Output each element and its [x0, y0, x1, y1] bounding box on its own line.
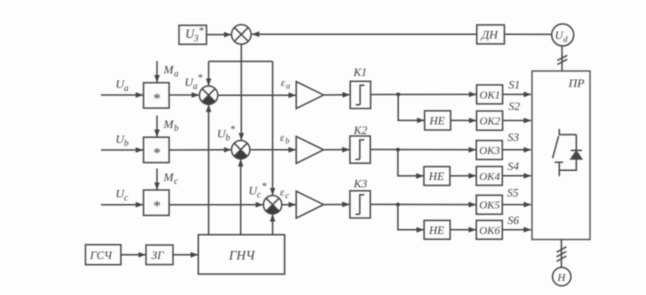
amplifier A [296, 82, 323, 109]
summing junction SC [263, 196, 281, 214]
block OK3 [476, 141, 502, 160]
block DN (voltage sensor) [477, 25, 505, 44]
svg-text:*: * [230, 125, 235, 136]
block OK5 [476, 195, 502, 214]
wire NE1 to OK2 [451, 119, 477, 121]
wire OK3 to PR, signal S3 [502, 149, 531, 151]
wire OK4 to PR, signal S4 [502, 175, 531, 177]
svg-text:S2: S2 [509, 101, 521, 113]
wire OK2 to PR, signal S2 [503, 120, 531, 122]
svg-text:*: * [199, 26, 204, 37]
wire DN to multiplier M0 [252, 33, 477, 35]
block NE3 (inverter) [424, 220, 450, 239]
svg-text:*: * [262, 182, 267, 193]
svg-text:S4: S4 [508, 161, 520, 173]
svg-text:M: M [163, 170, 175, 184]
wire NE2 to OK4 [450, 175, 476, 177]
block OK1 [477, 85, 503, 104]
wire Ma into multiplier box A [156, 61, 158, 82]
svg-text:НЕ: НЕ [428, 225, 444, 237]
multiplier box B [144, 137, 170, 162]
wire summer B to amplifier B [250, 149, 296, 151]
svg-text:S3: S3 [508, 132, 520, 144]
wire input Ua [101, 94, 143, 96]
wire junction C down to NE3 [398, 205, 424, 230]
diode VD antiparallel [571, 151, 582, 159]
wire K3 to OK5 [370, 203, 476, 205]
junction node row C [396, 203, 400, 207]
svg-text:a: a [174, 69, 179, 79]
wire GSC to ZG [121, 254, 146, 256]
multiplier box A [144, 83, 170, 108]
wire bar down to summer C [272, 61, 274, 195]
wire summer A to amplifier A [218, 94, 296, 96]
svg-text:*: * [153, 91, 161, 107]
svg-text:OK2: OK2 [480, 116, 501, 128]
wire OK6 to PR, signal S6 [502, 229, 531, 231]
svg-text:K3: K3 [353, 179, 368, 191]
svg-text:OK3: OK3 [479, 145, 500, 157]
block ZG (master oscillator) [146, 245, 173, 265]
relay block K3 [350, 191, 370, 218]
svg-text:S1: S1 [509, 80, 521, 92]
svg-text:OK5: OK5 [479, 200, 500, 212]
multiplier M0 [232, 25, 252, 45]
wire GNC feedback to summer B [240, 159, 242, 234]
wire input Ub [101, 149, 143, 151]
multiplier box C [144, 190, 170, 215]
svg-text:*: * [153, 198, 161, 214]
wire Ud to PR with DC double-slash [561, 46, 563, 71]
motor H [553, 267, 571, 285]
svg-text:a: a [286, 81, 290, 91]
wire amplifier A to K1 [324, 94, 350, 96]
svg-text:b: b [174, 123, 179, 133]
svg-text:НЕ: НЕ [428, 171, 444, 183]
wire K2 to OK3 [370, 149, 476, 151]
block GNC (three-phase reference generator) [198, 235, 284, 274]
svg-text:d: d [563, 34, 568, 44]
wire box B to summer B, node Ub* [169, 149, 231, 151]
wire Mc into multiplier box C [156, 169, 158, 190]
svg-text:НЕ: НЕ [429, 116, 445, 128]
node Ud (DC link voltage) [552, 24, 574, 46]
wire box C to summer C, node Uc* [169, 204, 263, 206]
wire Mb into multiplier box B [156, 116, 158, 137]
svg-text:*: * [153, 146, 161, 162]
block GSC (random number generator) [86, 245, 121, 265]
junction node row B [396, 148, 400, 152]
svg-text:ГСЧ: ГСЧ [89, 250, 113, 262]
svg-text:*: * [198, 73, 203, 84]
summing junction SA [199, 86, 217, 104]
amplifier B [296, 136, 323, 163]
svg-text:OK4: OK4 [479, 171, 500, 183]
wire OK5 to PR, signal S5 [502, 204, 531, 206]
wire amplifier B to K2 [324, 149, 350, 151]
svg-text:OK1: OK1 [480, 89, 501, 101]
amplifier C [296, 191, 323, 218]
relay block K2 [350, 136, 370, 163]
svg-text:ПР: ПР [568, 76, 586, 90]
svg-text:ДН: ДН [481, 28, 500, 42]
wire U3* to multiplier M0 [207, 34, 232, 36]
summing junction SB [232, 141, 250, 159]
svg-text:c: c [174, 176, 178, 186]
svg-text:S6: S6 [508, 215, 520, 227]
wire ZG to GNC [173, 254, 198, 256]
svg-text:M: M [163, 117, 175, 131]
block NE1 (inverter) [425, 111, 451, 130]
svg-text:c: c [285, 190, 289, 200]
wire PR to motor with AC triple-slash [560, 240, 562, 268]
block U3* (setpoint) [179, 25, 207, 44]
wire OK1 to PR, signal S1 [503, 93, 531, 95]
wire GNC feedback to summer A [208, 105, 210, 235]
block NE2 (inverter) [424, 167, 450, 186]
wire distribution bar [209, 60, 273, 62]
wire bar down to summer A [208, 61, 210, 85]
block OK6 [476, 220, 502, 239]
wire GNC feedback to summer C [272, 214, 274, 234]
block OK4 [476, 167, 502, 186]
svg-text:a: a [124, 83, 129, 93]
svg-text:ГНЧ: ГНЧ [228, 247, 256, 262]
wire junction A down to NE1 [398, 94, 424, 120]
wire Ud to DN [504, 33, 551, 35]
svg-text:K1: K1 [353, 67, 367, 79]
svg-text:ЗГ: ЗГ [152, 250, 165, 262]
svg-text:c: c [124, 193, 128, 203]
wire box A to summer A, node Ua* [169, 94, 199, 96]
transistor VT (switch) inside PR [553, 129, 577, 176]
wire input Uc [101, 204, 143, 206]
svg-text:S5: S5 [507, 187, 519, 199]
block OK2 [477, 111, 503, 130]
relay block K1 [350, 81, 370, 108]
wire K1 to OK1 [371, 93, 477, 95]
wire summer C to amplifier C [282, 204, 296, 206]
block PR (converter) [532, 71, 590, 240]
junction node row A [396, 93, 400, 97]
svg-text:OK6: OK6 [479, 225, 500, 237]
svg-text:b: b [124, 138, 129, 148]
svg-text:Н: Н [557, 272, 567, 284]
svg-text:b: b [285, 136, 289, 146]
wire NE3 to OK6 [450, 229, 476, 231]
wire amplifier C to K3 [324, 203, 350, 205]
svg-text:M: M [163, 63, 175, 77]
svg-text:K2: K2 [353, 125, 368, 137]
svg-text:c: c [257, 190, 261, 200]
wire junction B down to NE2 [398, 150, 424, 176]
wire multiplier M0 output down to summer B [240, 44, 242, 140]
